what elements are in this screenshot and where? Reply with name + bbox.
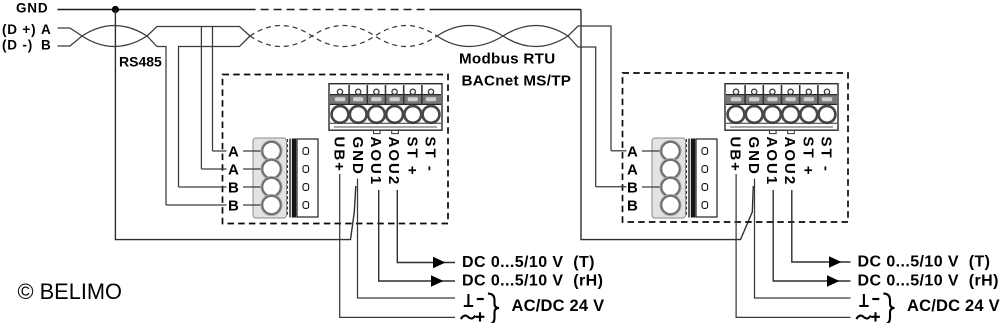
svg-text:Modbus RTU: Modbus RTU	[459, 51, 555, 68]
svg-text:B: B	[228, 179, 239, 196]
svg-text:ST +: ST +	[403, 137, 420, 177]
svg-text:BACnet MS/TP: BACnet MS/TP	[462, 73, 572, 90]
svg-text:B: B	[228, 197, 239, 214]
svg-text:GND: GND	[16, 1, 48, 16]
svg-text:GND: GND	[745, 137, 762, 176]
svg-text:DC 0...5/10 V (rH): DC 0...5/10 V (rH)	[858, 273, 999, 290]
svg-text:DC 0...5/10 V (T): DC 0...5/10 V (T)	[858, 253, 991, 270]
svg-text:AOU1: AOU1	[367, 137, 384, 187]
svg-text:ST -: ST -	[818, 137, 835, 173]
svg-text:A: A	[228, 161, 239, 178]
svg-text:DC 0...5/10 V (rH): DC 0...5/10 V (rH)	[462, 273, 603, 290]
svg-text:A: A	[228, 143, 239, 160]
svg-text:© BELIMO: © BELIMO	[18, 279, 122, 304]
svg-text:UB+: UB+	[331, 137, 348, 173]
svg-text:B: B	[41, 38, 52, 53]
svg-text:AOU1: AOU1	[763, 137, 780, 187]
svg-text:ST +: ST +	[799, 137, 816, 177]
svg-text:A: A	[627, 143, 638, 160]
svg-text:DC 0...5/10 V (T): DC 0...5/10 V (T)	[462, 254, 595, 271]
svg-text:AC/DC 24 V: AC/DC 24 V	[512, 297, 605, 315]
svg-text:B: B	[627, 197, 638, 214]
svg-text:ST -: ST -	[422, 137, 439, 173]
svg-text:B: B	[627, 179, 638, 196]
svg-text:RS485: RS485	[119, 54, 162, 70]
svg-text:UB+: UB+	[727, 137, 744, 173]
svg-text:GND: GND	[349, 137, 366, 176]
svg-text:AOU2: AOU2	[385, 137, 402, 187]
svg-text:AC/DC 24 V: AC/DC 24 V	[907, 297, 1000, 315]
svg-text:(D +): (D +)	[2, 22, 36, 37]
svg-text:(D -): (D -)	[2, 38, 33, 53]
svg-text:AOU2: AOU2	[781, 137, 798, 187]
svg-text:A: A	[627, 161, 638, 178]
svg-text:A: A	[41, 22, 52, 37]
